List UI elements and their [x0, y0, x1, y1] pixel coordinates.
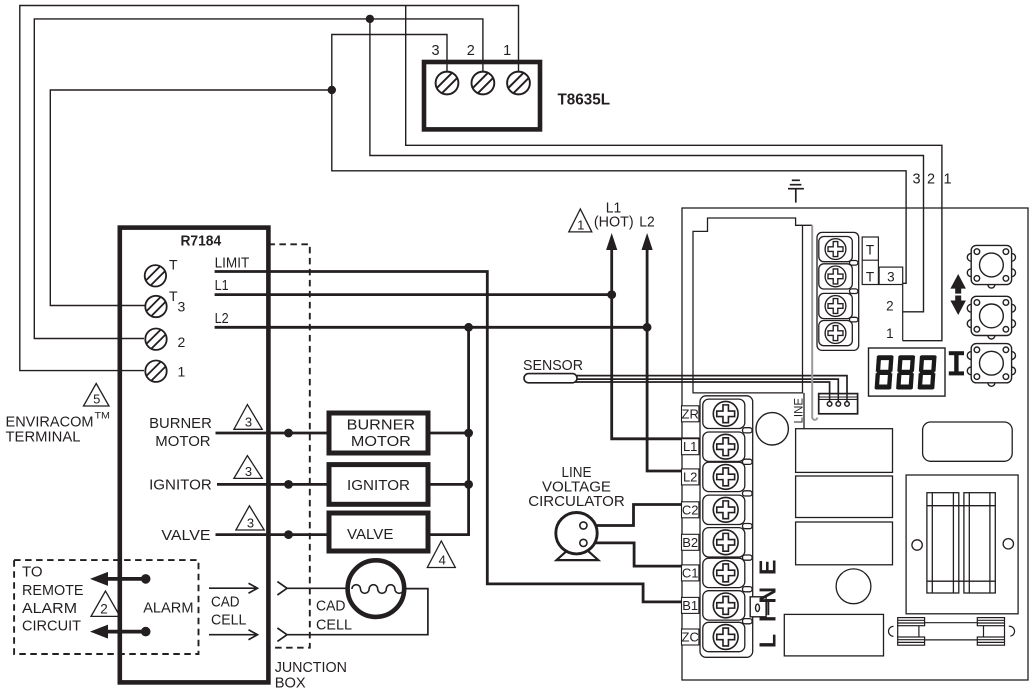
wire: junction down and right to board terminal 3	[332, 90, 906, 283]
junction dot L1 at (611.7,294.6)	[607, 290, 616, 299]
svg-text:CAD: CAD	[211, 595, 240, 611]
wire: ignitor box to return bus	[428, 483, 469, 486]
svg-text:3: 3	[178, 299, 186, 315]
chevron upper	[277, 582, 287, 595]
svg-text:R7184: R7184	[180, 233, 221, 250]
wire: R7184 screw2 to T8635L screw2	[34, 19, 483, 339]
svg-text:C2: C2	[682, 502, 699, 517]
wire: upper cad lead	[287, 587, 350, 589]
svg-text:3: 3	[912, 172, 920, 188]
svg-text:MOTOR: MOTOR	[351, 433, 411, 450]
cad cell element squiggle	[352, 585, 404, 594]
callout triangle 3 (ignitor)	[234, 456, 262, 479]
svg-text:TERMINAL: TERMINAL	[6, 429, 81, 446]
svg-text:(HOT): (HOT)	[594, 214, 634, 231]
svg-text:1: 1	[577, 218, 584, 233]
board screw C1	[713, 561, 738, 586]
svg-text:3: 3	[432, 43, 440, 59]
svg-text:LINE: LINE	[794, 398, 806, 424]
svg-text:ZR: ZR	[682, 406, 699, 421]
wire: burner motor box to return bus	[428, 432, 469, 435]
board outline	[682, 208, 1028, 680]
cover outline polygon	[693, 218, 812, 393]
terminal screw T	[825, 266, 846, 287]
svg-text:T8635L: T8635L	[558, 91, 611, 108]
svg-text:ALARM: ALARM	[143, 599, 193, 616]
board screw L1	[713, 434, 738, 459]
svg-text:B1: B1	[682, 598, 698, 613]
R7184 screw T3	[145, 296, 166, 317]
board screw ZR	[713, 401, 738, 426]
junction dot L2 at (647.1,327.3)	[643, 323, 652, 332]
svg-text:IGNITOR: IGNITOR	[149, 476, 212, 493]
svg-text:B2: B2	[682, 535, 698, 550]
wire: ignitor lead	[217, 483, 329, 486]
junction dot return bus at L2	[464, 323, 473, 332]
chevron lower	[277, 628, 287, 641]
svg-text:CELL: CELL	[316, 617, 352, 633]
T8635L screw 3	[436, 72, 459, 95]
cad cell arrow lower (open)	[209, 630, 258, 640]
board screw C2	[713, 497, 738, 522]
svg-text:SENSOR: SENSOR	[523, 357, 583, 374]
cad cell circle	[348, 560, 405, 617]
arrow L1 (HOT)	[606, 233, 617, 250]
R7184 screw T	[145, 265, 166, 286]
wire: circulator upper terminal to board C2	[585, 505, 715, 526]
svg-text:C1: C1	[682, 565, 699, 580]
R7184 box	[120, 228, 269, 683]
motor body	[556, 513, 597, 554]
svg-text:2: 2	[886, 299, 894, 314]
svg-text:CIRCULATOR: CIRCULATOR	[528, 493, 625, 510]
wire: valve lead	[216, 533, 330, 536]
board screw ZC	[713, 625, 738, 650]
svg-text:TO: TO	[22, 563, 43, 580]
T8635L screw 1	[507, 72, 530, 95]
motor terminal lower	[580, 539, 587, 546]
svg-text:BOX: BOX	[275, 675, 306, 692]
junction dot return bus at ignitor	[464, 480, 473, 489]
svg-text:L2: L2	[639, 214, 655, 231]
wire: junction up to T8635L screw 3	[332, 35, 447, 91]
svg-text:2: 2	[927, 172, 935, 188]
small circle component	[836, 569, 871, 604]
wire: R7184 screw T3 to junction at (331.8,90)	[50, 90, 332, 306]
sensor probe	[524, 374, 577, 383]
svg-text:3: 3	[245, 415, 252, 430]
wire: L2 horizontal	[215, 326, 647, 329]
svg-text:VALVE: VALVE	[161, 527, 210, 544]
svg-text:VALVE: VALVE	[347, 526, 393, 543]
svg-text:BURNER: BURNER	[149, 415, 212, 432]
sensor leads	[570, 376, 847, 401]
svg-text:IGNITOR: IGNITOR	[347, 477, 410, 494]
svg-text:CIRCUIT: CIRCUIT	[22, 617, 81, 634]
svg-text:BURNER: BURNER	[347, 416, 416, 433]
wire: return bus vertical to L2 and valve box	[428, 327, 469, 534]
terminal screw T	[825, 239, 846, 260]
callout triangle 1	[569, 209, 592, 232]
svg-text:T: T	[169, 257, 178, 273]
callout triangle 2	[91, 591, 120, 616]
board screw L2	[713, 465, 738, 490]
svg-text:LIMIT: LIMIT	[215, 255, 250, 272]
junction dot on valve lead	[284, 530, 293, 539]
wire: branch from top wire down to board terminal 1	[406, 6, 942, 341]
svg-text:3: 3	[245, 464, 252, 479]
wire: L1 riser to arrow and down to board L1	[612, 250, 717, 439]
wire: burner motor lead	[216, 432, 330, 435]
junction dot on burner motor lead	[284, 429, 293, 438]
wire: LIMIT to board B1	[215, 272, 717, 602]
svg-text:3: 3	[887, 270, 895, 285]
B1 spade terminal	[750, 597, 768, 617]
svg-text:3: 3	[247, 516, 254, 531]
svg-text:JUNCTION: JUNCTION	[275, 659, 347, 676]
connector body	[819, 394, 858, 414]
svg-text:L2: L2	[215, 310, 229, 327]
terminal screw 3(2)	[825, 296, 846, 317]
svg-text:L1: L1	[215, 277, 229, 294]
svg-text:T: T	[866, 243, 874, 258]
arrow L2	[642, 233, 653, 250]
svg-text:4: 4	[439, 553, 446, 568]
R7184 screw 1	[145, 361, 166, 382]
svg-text:MOTOR: MOTOR	[155, 433, 210, 450]
svg-text:1: 1	[886, 326, 894, 341]
svg-text:2: 2	[100, 602, 108, 617]
svg-text:2: 2	[178, 334, 186, 350]
svg-text:CELL: CELL	[211, 612, 246, 628]
T8635L box	[424, 62, 540, 129]
svg-text:1: 1	[943, 172, 951, 188]
svg-text:TM: TM	[95, 410, 111, 421]
callout triangle 4	[427, 541, 455, 568]
down arrow	[950, 296, 966, 316]
svg-text:LINE: LINE	[755, 548, 781, 648]
alarm output arrow upper	[106, 577, 146, 581]
svg-text:2: 2	[467, 43, 475, 59]
alarm output arrow lower	[106, 630, 146, 634]
junction dot at (331.8,90)	[328, 86, 336, 94]
terminal label boxes	[682, 406, 699, 645]
svg-text:1: 1	[178, 364, 186, 380]
svg-text:CAD: CAD	[316, 599, 346, 615]
connector bracket	[812, 225, 817, 420]
svg-text:REMOTE: REMOTE	[22, 582, 84, 599]
junction dot return bus at burner motor	[464, 429, 473, 438]
callout triangle 5	[84, 384, 110, 407]
cover to relay link	[803, 393, 805, 429]
wire: circulator lower terminal to board C1	[586, 543, 715, 566]
terminal screw 1	[825, 323, 846, 344]
svg-text:5: 5	[93, 392, 100, 407]
wire: L1 horizontal	[215, 293, 612, 296]
board screw B2	[713, 530, 738, 555]
T8635L screw 2	[472, 72, 495, 95]
callout triangle 3 (burner motor)	[234, 405, 262, 430]
cad cell arrow upper (open)	[209, 583, 258, 593]
T label box	[862, 237, 903, 341]
svg-text:T: T	[866, 270, 874, 285]
wire: R7184 screw1 to T8635L screw1 (outer loop)	[20, 6, 519, 371]
wire: lower cad lead loop	[287, 589, 428, 635]
motor base	[557, 551, 599, 560]
ground symbol	[788, 180, 804, 202]
junction dot at (369.9,18.9)	[366, 15, 374, 23]
callout triangle 3 (valve)	[236, 506, 264, 530]
svg-text:L2: L2	[683, 469, 697, 484]
junction dot on ignitor lead	[284, 480, 293, 489]
svg-text:L1: L1	[683, 439, 697, 454]
svg-text:1: 1	[503, 43, 511, 59]
motor terminal upper	[580, 522, 587, 529]
wire: branch from wire2 down to board terminal 2	[370, 19, 924, 312]
R7184 screw 2	[145, 329, 166, 350]
buzzer circle	[756, 413, 788, 445]
svg-text:ALARM: ALARM	[22, 600, 77, 617]
board screw B1	[713, 593, 738, 618]
up arrow	[950, 274, 966, 294]
wire: L2 riser to arrow and down to board L2	[647, 250, 717, 472]
reset I icon	[949, 353, 964, 373]
pin stubs	[827, 394, 849, 407]
svg-text:ZC: ZC	[682, 630, 699, 645]
capacitor rounded box	[923, 422, 1013, 461]
